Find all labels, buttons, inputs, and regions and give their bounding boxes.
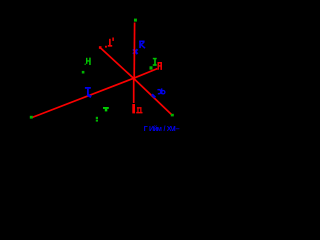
svg-text:Г: Г xyxy=(144,124,148,133)
svg-text:Ийм: Ийм xyxy=(149,124,162,133)
svg-text:ХVІ: ХVІ xyxy=(167,124,176,133)
svg-text:/: / xyxy=(164,124,166,133)
svg-text:–: – xyxy=(176,124,180,133)
